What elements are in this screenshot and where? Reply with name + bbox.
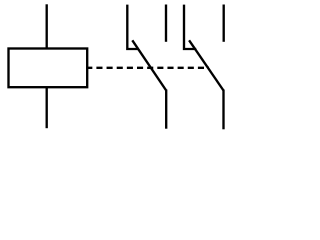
contact 2 NO fixed terminal [223, 5, 225, 42]
mechanical linkage (dashed actuation line) [86, 67, 209, 69]
wire contact 1 common lead [165, 90, 167, 129]
wire coil bottom lead [46, 87, 48, 128]
contact 2 movable blade [189, 40, 223, 90]
contact 2 NC fixed terminal with hook [184, 5, 196, 49]
wire contact 2 common lead [222, 90, 224, 130]
wire coil top lead [46, 4, 48, 48]
contact 1 movable blade [132, 40, 166, 90]
contact 1 NC fixed terminal with hook [127, 5, 138, 49]
contact 1 NO fixed terminal [165, 5, 167, 42]
relay coil K [9, 49, 88, 88]
